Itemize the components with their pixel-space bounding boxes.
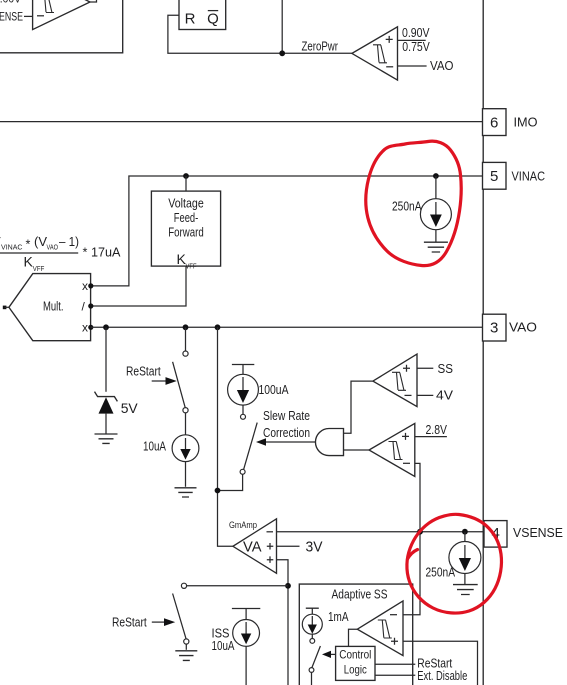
wire KFF output to divider input xyxy=(91,266,186,306)
svg-text:250nA: 250nA xyxy=(392,200,422,214)
wire vertical to top edge xyxy=(281,0,283,53)
node 250nA junction at VINAC xyxy=(433,173,439,179)
block U11 Control Logic xyxy=(336,646,375,680)
wire + to SS xyxy=(417,367,433,369)
node junction xyxy=(285,583,291,589)
zener diode D1 5V xyxy=(95,392,118,434)
svg-text:Slew Rate: Slew Rate xyxy=(263,409,310,423)
svg-text:* 17uA: * 17uA xyxy=(83,245,121,260)
annotation red circle around 250nA at VSENSE xyxy=(407,514,502,613)
ground xyxy=(175,488,197,497)
wire VAO net xyxy=(91,326,483,328)
svg-text:– 1): – 1) xyxy=(59,234,79,249)
block boundary box (top-left) xyxy=(0,0,123,53)
svg-text:VSENSE: VSENSE xyxy=(513,526,563,540)
current source I6 1mA xyxy=(302,608,322,638)
gate U6 AND xyxy=(315,429,343,456)
svg-text:SS: SS xyxy=(438,362,454,376)
svg-text:Forward: Forward xyxy=(168,225,204,239)
wire ReStart input xyxy=(375,663,415,665)
wire + input 2.8V xyxy=(415,436,447,438)
svg-text:Logic: Logic xyxy=(344,663,367,677)
current source I4 250nA xyxy=(449,532,481,585)
svg-text:3V: 3V xyxy=(306,539,323,556)
svg-text:6: 6 xyxy=(490,114,498,131)
svg-text:0.75V: 0.75V xyxy=(402,40,430,54)
wire into Voltage Feed-Forward xyxy=(185,176,187,191)
svg-text:5V: 5V xyxy=(121,400,139,416)
svg-text:x: x xyxy=(82,320,88,334)
svg-text:4V: 4V xyxy=(436,389,454,403)
switch S1 ReStart xyxy=(173,327,188,413)
svg-text:Control: Control xyxy=(339,648,371,662)
ground xyxy=(453,585,478,595)
switch S4 xyxy=(309,639,320,685)
pin 5 xyxy=(483,162,507,189)
current source I3 100uA xyxy=(228,365,259,415)
svg-text:Voltage: Voltage xyxy=(168,197,204,211)
wire IMO xyxy=(0,121,483,123)
wire to zener xyxy=(105,327,107,392)
svg-text:0.90V: 0.90V xyxy=(402,26,430,40)
svg-text:VA: VA xyxy=(243,539,262,556)
node ZeroPwr junction xyxy=(279,50,285,56)
wire to ReStart switch xyxy=(187,585,288,587)
op-amp U9 GmAmp VA xyxy=(229,519,277,574)
svg-text:100uA: 100uA xyxy=(259,383,290,397)
latch U2 R-Q xyxy=(179,0,226,30)
wire + input 3V xyxy=(277,545,300,547)
wire xyxy=(24,15,33,17)
node junction on VSENSE xyxy=(417,529,423,535)
svg-text:VINAC: VINAC xyxy=(1,243,23,252)
wire VA output vertical xyxy=(218,327,233,546)
svg-text:Q: Q xyxy=(207,11,219,28)
svg-text:*: * xyxy=(26,238,31,252)
ground xyxy=(175,651,197,661)
chip boundary xyxy=(482,0,484,685)
svg-text:ZeroPwr: ZeroPwr xyxy=(302,40,339,54)
svg-text:ReStart: ReStart xyxy=(112,616,147,630)
node junction xyxy=(215,488,221,494)
wire + input down right xyxy=(403,641,478,685)
wire + input / threshold separator xyxy=(398,39,426,41)
svg-text:10uA: 10uA xyxy=(143,439,167,453)
op-amp U1 (partial, top-left comparator) xyxy=(33,0,97,30)
comparator U10 adaptive SS xyxy=(357,601,403,656)
node zener junction xyxy=(103,324,109,330)
wire R input to ZeroPwr net xyxy=(168,15,352,53)
multiplier U5 Mult xyxy=(9,274,91,341)
wire - to 4V xyxy=(417,394,433,396)
wire VINAC xyxy=(91,176,483,286)
node VFF top junction xyxy=(183,173,189,179)
svg-text:GmAmp: GmAmp xyxy=(229,520,257,530)
svg-text:Ext. Disable: Ext. Disable xyxy=(417,669,467,683)
pin 4 xyxy=(484,521,507,548)
svg-text:VAO: VAO xyxy=(430,59,454,73)
svg-text:1mA: 1mA xyxy=(328,610,349,624)
node x input dot xyxy=(88,283,93,288)
pin 3 xyxy=(483,314,507,341)
svg-text:Mult.: Mult. xyxy=(43,300,64,314)
annotation red squiggle xyxy=(408,550,418,560)
node VA output junction xyxy=(215,324,221,330)
svg-text:VINAC: VINAC xyxy=(512,169,546,183)
wire Ext.Disable input xyxy=(375,674,415,676)
node / input dot xyxy=(88,303,93,308)
switch S3 ReStart (bottom) xyxy=(173,583,189,650)
wire + bottom input down xyxy=(277,560,289,685)
node x2 input dot xyxy=(88,325,93,330)
svg-text:5: 5 xyxy=(490,168,498,185)
node ReStart switch junction xyxy=(183,324,189,330)
svg-text:VFF: VFF xyxy=(186,262,197,271)
svg-text:Adaptive SS: Adaptive SS xyxy=(332,587,388,601)
node multiplier output xyxy=(3,306,7,310)
svg-text:VFF: VFF xyxy=(33,264,45,273)
current source I5 ISS 10uA xyxy=(232,609,260,685)
switch S2 slew rate xyxy=(218,414,258,490)
svg-text:VAO: VAO xyxy=(509,321,537,335)
svg-text:Feed-: Feed- xyxy=(174,211,199,225)
ground xyxy=(424,242,448,252)
block Adaptive SS box xyxy=(299,584,412,685)
svg-text:2.8V: 2.8V xyxy=(426,423,448,437)
svg-text:0.00V: 0.00V xyxy=(0,0,21,6)
arrow xyxy=(152,380,166,382)
arrow xyxy=(152,621,164,623)
annotation red circle around 250nA at VINAC xyxy=(366,141,462,265)
wire - input down to VSENSE net xyxy=(403,463,420,614)
svg-text:10uA: 10uA xyxy=(212,639,236,653)
pin 6 xyxy=(483,109,507,136)
node 250nA junction at VSENSE xyxy=(462,529,468,535)
comparator U7 SS/4V xyxy=(373,354,417,407)
svg-text:ReStart: ReStart xyxy=(126,365,161,379)
wire VSENSE net xyxy=(277,531,485,533)
svg-text:IMO: IMO xyxy=(514,115,538,129)
comparator U3 ZeroPwr xyxy=(352,27,398,80)
wire 2.8V comp output to AND xyxy=(344,449,370,451)
arrow to switch xyxy=(331,653,336,655)
current source I1 250nA xyxy=(420,176,451,242)
svg-text:Correction: Correction xyxy=(263,426,310,440)
svg-text:x: x xyxy=(82,279,88,293)
svg-text:(V: (V xyxy=(34,234,47,249)
wire - input to VAO xyxy=(398,65,427,67)
wire SS comp output to AND xyxy=(344,381,373,433)
wire AND output arrow xyxy=(266,441,316,443)
svg-text:3: 3 xyxy=(490,320,498,337)
ground xyxy=(95,434,118,443)
svg-text:250nA: 250nA xyxy=(426,566,456,580)
wire comp output to Control Logic xyxy=(349,629,358,646)
current source I2 10uA xyxy=(172,413,199,487)
formula label V_VINAC*(V_VAO-1)/K_VFF * 17uA xyxy=(0,234,121,273)
comparator U8 2.8V xyxy=(369,423,415,476)
svg-text:VAO: VAO xyxy=(47,243,59,252)
svg-text:ENSE: ENSE xyxy=(0,10,23,24)
block U4 Voltage Feed-Forward xyxy=(151,191,220,270)
svg-text:R: R xyxy=(185,11,196,28)
